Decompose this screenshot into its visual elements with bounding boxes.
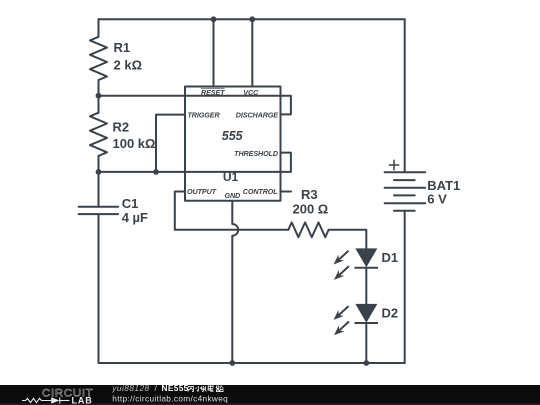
svg-text:U1: U1 bbox=[223, 170, 239, 184]
svg-text:D1: D1 bbox=[382, 250, 399, 265]
svg-text:yui88128: yui88128 bbox=[111, 383, 149, 393]
svg-text:TRIGGER: TRIGGER bbox=[188, 111, 221, 120]
svg-text:4 µF: 4 µF bbox=[122, 210, 148, 225]
svg-text:200 Ω: 200 Ω bbox=[293, 202, 329, 217]
svg-text:6 V: 6 V bbox=[427, 192, 447, 207]
wire trigger net bbox=[156, 115, 185, 172]
resistor R3 bbox=[288, 222, 328, 237]
svg-text:NE555: NE555 bbox=[162, 383, 189, 393]
svg-text:OUTPUT: OUTPUT bbox=[187, 187, 217, 196]
wire reset pin bbox=[213, 19, 215, 86]
wire discharge net bbox=[99, 96, 291, 115]
wire top rail bbox=[99, 18, 405, 20]
node R2/C1/threshold bbox=[96, 169, 102, 175]
battery BAT1 plates bbox=[385, 172, 426, 210]
battery plus sign bbox=[389, 160, 398, 169]
wire left rail top bbox=[98, 19, 100, 37]
svg-text:LAB: LAB bbox=[72, 395, 93, 405]
LED D2 bbox=[334, 304, 378, 334]
footer bar bbox=[0, 383, 540, 405]
wire R2 bottom lead bbox=[98, 156, 100, 172]
node led/bottom rail bbox=[363, 360, 369, 366]
IC U1 555 box bbox=[185, 87, 281, 201]
resistor R2 bbox=[90, 113, 107, 156]
wire D2 to bottom rail bbox=[365, 323, 367, 363]
svg-text:R1: R1 bbox=[114, 40, 131, 55]
svg-text:GND: GND bbox=[224, 191, 240, 200]
wire control stub bbox=[281, 191, 292, 193]
wire D1 to D2 bbox=[365, 268, 367, 305]
svg-text:R2: R2 bbox=[113, 120, 130, 135]
svg-text:100 kΩ: 100 kΩ bbox=[113, 136, 156, 151]
svg-text:http://circuitlab.com/c4nkweq: http://circuitlab.com/c4nkweq bbox=[112, 393, 228, 403]
svg-text:THRESHOLD: THRESHOLD bbox=[234, 149, 278, 158]
wire R2 top lead bbox=[98, 96, 100, 113]
wire bottom rail bbox=[99, 362, 405, 364]
battery bottom wire bbox=[404, 211, 406, 363]
svg-text:C1: C1 bbox=[122, 196, 139, 211]
LED D1 bbox=[334, 249, 378, 279]
capacitor C1 bottom lead bbox=[98, 214, 100, 363]
node reset/top rail bbox=[211, 16, 217, 22]
wire gnd pin with hop over output wire bbox=[232, 201, 238, 363]
svg-text:RESET: RESET bbox=[201, 88, 225, 97]
capacitor C1 top lead bbox=[98, 172, 100, 207]
wire vcc pin bbox=[251, 19, 253, 86]
battery top wire bbox=[404, 19, 406, 172]
wire R1 bottom lead bbox=[98, 80, 100, 96]
wire output net bbox=[175, 192, 288, 230]
svg-text:2 kΩ: 2 kΩ bbox=[114, 58, 143, 73]
wire threshold net bbox=[99, 153, 291, 172]
svg-text:D2: D2 bbox=[382, 306, 399, 321]
node vcc/top rail bbox=[249, 16, 255, 22]
node R1/R2/discharge bbox=[96, 93, 102, 99]
svg-text:VCC: VCC bbox=[243, 88, 259, 97]
svg-text:DISCHARGE: DISCHARGE bbox=[236, 111, 279, 120]
capacitor C1 plates bbox=[79, 207, 119, 214]
node trigger junction bbox=[153, 169, 159, 175]
CJK title glyphs drawn as strokes bbox=[188, 385, 223, 392]
svg-text:CONTROL: CONTROL bbox=[243, 187, 278, 196]
wire R3 to D1 bbox=[329, 230, 367, 249]
logo zigzag + diode symbol bbox=[22, 397, 70, 403]
junction nodes bbox=[96, 16, 370, 366]
svg-text:555: 555 bbox=[222, 129, 244, 143]
svg-text:R3: R3 bbox=[301, 187, 318, 202]
resistor R1 bbox=[90, 37, 107, 80]
node gnd/bottom rail bbox=[229, 360, 235, 366]
